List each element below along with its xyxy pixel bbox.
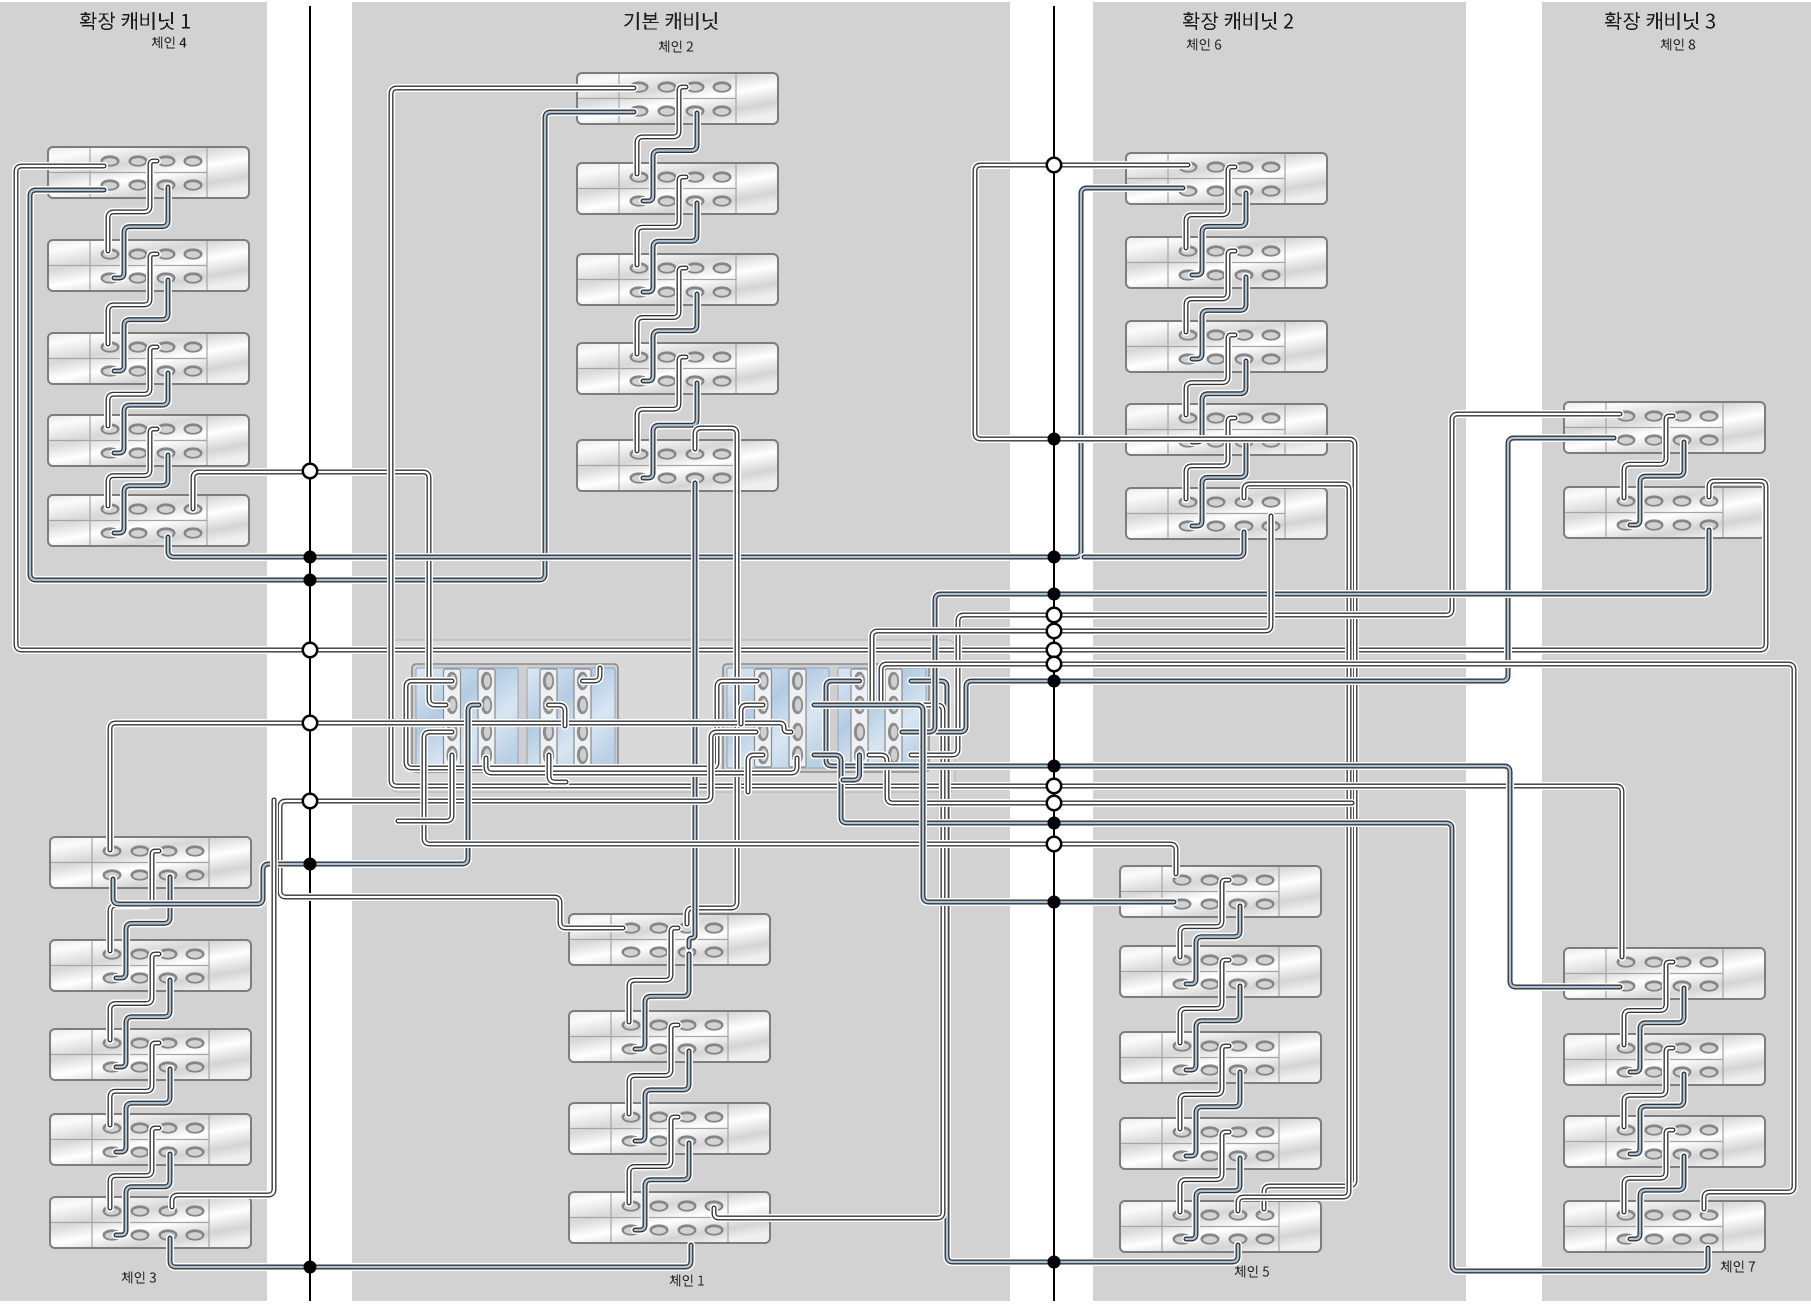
wire chain3 shelf1 bottom to controller1 <box>113 705 479 904</box>
wire controller1 to chain5 shelf1 top <box>424 732 1176 874</box>
wire c5 shelf3-to-4 path A <box>1180 1046 1229 1129</box>
junction circle line2 y803 <box>1047 796 1061 810</box>
junction dot line2 y902 <box>1048 896 1061 909</box>
wire c4 shelf3-to-4 path A <box>108 347 157 426</box>
wire c5 shelf4-to-5 path B <box>1186 1158 1240 1239</box>
wire controller2 hook b <box>843 755 860 780</box>
wire c2 shelf1-to-2 path B <box>643 113 697 201</box>
wire chain3 shelf1 top to controller2 <box>110 723 791 850</box>
junction circle line1 y723 <box>303 716 317 730</box>
junction dot line2 y823 <box>1048 817 1061 830</box>
wire c1 shelf3-to-4 path A <box>629 1117 678 1203</box>
junction dot line2 y766 <box>1048 760 1061 773</box>
disk shelf c8-2 <box>1564 487 1765 538</box>
junction dot line1 y580 <box>304 574 317 587</box>
wire chain2 shelf5 to chain1 shelf1 bottom <box>689 483 695 947</box>
wire c1 shelf3-to-4 path B <box>635 1143 689 1230</box>
disk shelf c6-5 <box>1126 488 1327 539</box>
wire controller1 card3 hook <box>549 705 566 726</box>
wire c4 shelf4-to-5 path A <box>108 429 157 506</box>
wire chain4 shelf5 to controller1 <box>193 472 446 705</box>
disk shelf c2-1 <box>577 73 778 124</box>
junction circle line2 y615 <box>1047 608 1061 622</box>
cabinet panel: expansion cabinet 3 <box>1542 2 1811 1301</box>
disk shelf c8-1 <box>1564 402 1765 453</box>
junction dot line1 y1267 <box>304 1261 317 1274</box>
junction circle line1 y650 <box>303 643 317 657</box>
wire controller2 to chain7 shelf1 bottom <box>826 681 1620 987</box>
wire c2 shelf4-to-5 path A <box>637 357 686 451</box>
disk shelf c5-1 <box>1120 866 1321 917</box>
label 체인 5 <box>1235 1266 1270 1278</box>
wire c2 shelf2-to-3 path B <box>643 203 697 292</box>
wire controller interconnect B <box>486 758 797 773</box>
junction dot line1 y557 <box>304 551 317 564</box>
disk shelf c1-2 <box>569 1011 770 1062</box>
wire c4 shelf1-to-2 path B <box>114 187 168 278</box>
wire c4 shelf3-to-4 path B <box>114 373 168 453</box>
disk shelf c6-1 <box>1126 153 1327 204</box>
disk shelf c4-5 <box>48 495 249 546</box>
cabinet panel: base cabinet <box>352 2 1010 1301</box>
wire c2 shelf2-to-3 path A <box>637 177 686 265</box>
label 체인 6 <box>1187 39 1222 51</box>
wire controller1 card4 hook <box>583 668 601 681</box>
wire c3 shelf3-to-4 path A <box>110 1043 159 1125</box>
label 체인 1 <box>670 1275 704 1287</box>
cabinet panel: expansion cabinet 1 <box>0 2 267 1301</box>
wire c4 shelf1-to-2 path A <box>108 161 157 251</box>
wire c6 shelf2-to-3 path B <box>1192 277 1246 359</box>
label 체인 4 <box>152 37 187 49</box>
cabinet boundary line 1 <box>309 6 311 1301</box>
wire c1 shelf2-to-3 path A <box>629 1025 678 1114</box>
wire c3 shelf2-to-3 path B <box>116 980 170 1067</box>
junction circle line2 y786 <box>1047 779 1061 793</box>
label 확장 캐비닛 1 <box>80 12 190 30</box>
wire c5 shelf3-to-4 path B <box>1186 1072 1240 1156</box>
wire c3 shelf4-to-5 path A <box>110 1128 159 1208</box>
wire c8 shelf1-to-2 path A <box>1624 416 1673 498</box>
wire controller2 to chain5 shelf1 bottom <box>814 705 1174 902</box>
disk shelf c4-3 <box>48 333 249 384</box>
disk shelf c1-1 <box>569 914 770 965</box>
junction dot line2 y594 <box>1048 588 1061 601</box>
wire chain6 shelf5 to chain5 shelf5 pathB <box>1238 484 1349 1211</box>
disk shelf c3-3 <box>50 1029 251 1080</box>
junction dot line2 y1262 <box>1048 1256 1061 1269</box>
wire c1 shelf2-to-3 path B <box>635 1051 689 1141</box>
wire controller2 to chain7 shelf4 bottom <box>814 755 1708 1271</box>
disk shelf c6-3 <box>1126 321 1327 372</box>
disk shelf c1-4 <box>569 1192 770 1243</box>
wire chain4 shelf5 to chain6 shelf1 <box>168 188 1183 557</box>
wire chain2 shelf5 to chain1 shelf1 top <box>687 428 737 924</box>
wire controller2 to chain8 shelf1 bottom <box>911 438 1614 732</box>
wire chain6 shelf1 to chain5 shelf5 <box>975 165 1355 1209</box>
wire c7 shelf1-to-2 path B <box>1630 988 1684 1072</box>
disk shelf c5-5 <box>1120 1201 1321 1252</box>
disk shelf c7-4 <box>1564 1201 1765 1252</box>
label 확장 캐비닛 2 <box>1183 12 1293 30</box>
disk shelf c6-4 <box>1126 404 1327 455</box>
wire c4 shelf2-to-3 path A <box>108 254 157 344</box>
wire c3 shelf3-to-4 path B <box>116 1069 170 1152</box>
wire controller2 card1 hook <box>741 705 763 724</box>
junction dot line2 y557 <box>1048 551 1061 564</box>
wire controller1 hook b <box>549 755 566 782</box>
wire c5 shelf1-to-2 path A <box>1180 880 1229 957</box>
wire c3 shelf1-to-2 path B <box>116 877 170 978</box>
label 확장 캐비닛 3 <box>1605 12 1715 30</box>
disk shelf c5-3 <box>1120 1032 1321 1083</box>
disk shelf c2-2 <box>577 163 778 214</box>
wire c7 shelf3-to-4 path A <box>1624 1130 1673 1212</box>
wire c2 shelf3-to-4 path B <box>643 294 697 381</box>
wire c7 shelf1-to-2 path A <box>1624 962 1673 1045</box>
wire c7 shelf2-to-3 path B <box>1630 1074 1684 1154</box>
label 체인 8 <box>1661 39 1696 51</box>
junction dot line2 y439 <box>1048 433 1061 446</box>
junction circle line2 y631 <box>1047 624 1061 638</box>
wire chain1 shelf1 top to controller2 <box>280 732 756 928</box>
wire c5 shelf4-to-5 path A <box>1180 1132 1229 1212</box>
junction circle line2 y165 <box>1047 158 1061 172</box>
wire c6 shelf4-to-5 path A <box>1186 418 1235 499</box>
junction dot line1 y864 <box>304 858 317 871</box>
wire c7 shelf3-to-4 path B <box>1630 1156 1684 1239</box>
label 체인 3 <box>122 1272 156 1284</box>
wire controller to chain3 shelf5 top <box>172 800 274 1207</box>
wire cabinet1 shelf1 to base chain2 shelf1 <box>30 112 634 580</box>
label 체인 2 <box>659 41 694 53</box>
disk shelf c6-2 <box>1126 237 1327 288</box>
wire chain6 shelf5 bottom stub <box>1084 532 1244 557</box>
disk shelf c7-2 <box>1564 1034 1765 1085</box>
disk shelf c3-1 <box>50 837 251 888</box>
junction circle line2 y650 <box>1047 643 1061 657</box>
wire cabinet1 shelf1 to cabinet3 chain8 shelf2 <box>16 166 1766 650</box>
disk shelf c7-1 <box>1564 948 1765 999</box>
junction circle line2 y844 <box>1047 837 1061 851</box>
controller node 2 <box>723 664 929 772</box>
wire controller2 to chain8 shelf1 top <box>911 414 1620 755</box>
disk shelf c5-4 <box>1120 1118 1321 1169</box>
wire c6 shelf3-to-4 path B <box>1192 361 1246 442</box>
wire c5 shelf2-to-3 path A <box>1180 960 1229 1043</box>
label 체인 7 <box>1721 1261 1756 1273</box>
disk shelf c2-5 <box>577 440 778 491</box>
wire c6 shelf3-to-4 path A <box>1186 335 1235 415</box>
wire controller interconnect A <box>406 681 757 768</box>
wire c5 shelf2-to-3 path B <box>1186 986 1240 1070</box>
disk shelf c4-4 <box>48 415 249 466</box>
disk shelf c4-2 <box>48 240 249 291</box>
wire c6 shelf1-to-2 path A <box>1186 167 1235 248</box>
controller background box <box>390 640 955 792</box>
wire chain6 shelf5 to controller2 <box>866 516 1271 705</box>
wire c6 shelf1-to-2 path B <box>1192 193 1246 275</box>
wire controller2 chain5 aux <box>869 755 1352 803</box>
disk shelf c3-4 <box>50 1114 251 1165</box>
wire c6 shelf2-to-3 path A <box>1186 251 1235 332</box>
wire c1 shelf1-to-2 path B <box>635 954 689 1049</box>
wire c3 shelf2-to-3 path A <box>110 954 159 1040</box>
wire chain2 shelf1 to chain7 shelf1 <box>391 88 1622 957</box>
disk shelf c2-3 <box>577 254 778 305</box>
wire controller2 hook a <box>748 755 763 792</box>
wire c4 shelf2-to-3 path B <box>114 280 168 371</box>
wire c2 shelf3-to-4 path A <box>637 268 686 354</box>
junction dot line2 y681 <box>1048 675 1061 688</box>
junction circle line2 y664 <box>1047 657 1061 671</box>
wire c8 shelf1-to-2 path B <box>1630 442 1684 525</box>
wire controller2 to chain1 shelf4 top <box>714 705 943 1218</box>
wire chain5 shelf5 to controller2 <box>911 681 1238 1262</box>
wire chain8 shelf2 to controller2 return <box>902 530 1709 732</box>
cabinet panel: expansion cabinet 2 <box>1093 2 1466 1301</box>
wire c6 shelf4-to-5 path B <box>1192 444 1246 526</box>
label 기본 캐비닛 <box>624 12 717 30</box>
disk shelf c7-3 <box>1564 1116 1765 1167</box>
wire chain3 shelf5 to chain1 shelf4 <box>170 1238 691 1267</box>
disk shelf c1-3 <box>569 1103 770 1154</box>
wire c3 shelf1-to-2 path A <box>110 851 159 951</box>
wire c2 shelf1-to-2 path A <box>637 87 686 174</box>
disk shelf c4-1 <box>48 147 249 198</box>
wire c5 shelf1-to-2 path B <box>1186 906 1240 984</box>
wire c7 shelf2-to-3 path A <box>1624 1048 1673 1127</box>
disk shelf c2-4 <box>577 343 778 394</box>
wire controller2 to chain7 shelf4 top <box>875 664 1794 1209</box>
wire c2 shelf4-to-5 path B <box>643 383 697 478</box>
wire c1 shelf1-to-2 path A <box>629 928 678 1022</box>
controller node 1 <box>412 664 618 772</box>
disk shelf c5-2 <box>1120 946 1321 997</box>
wire controller1 card1 port4 stub <box>398 755 452 821</box>
disk shelf c3-5 <box>50 1197 251 1248</box>
cabinet boundary line 2 <box>1053 6 1055 1301</box>
wire c3 shelf4-to-5 path B <box>116 1154 170 1235</box>
junction circle line1 y801 <box>303 794 317 808</box>
wire c4 shelf4-to-5 path B <box>114 455 168 533</box>
junction circle line1 y471 <box>303 464 317 478</box>
disk shelf c3-2 <box>50 940 251 991</box>
